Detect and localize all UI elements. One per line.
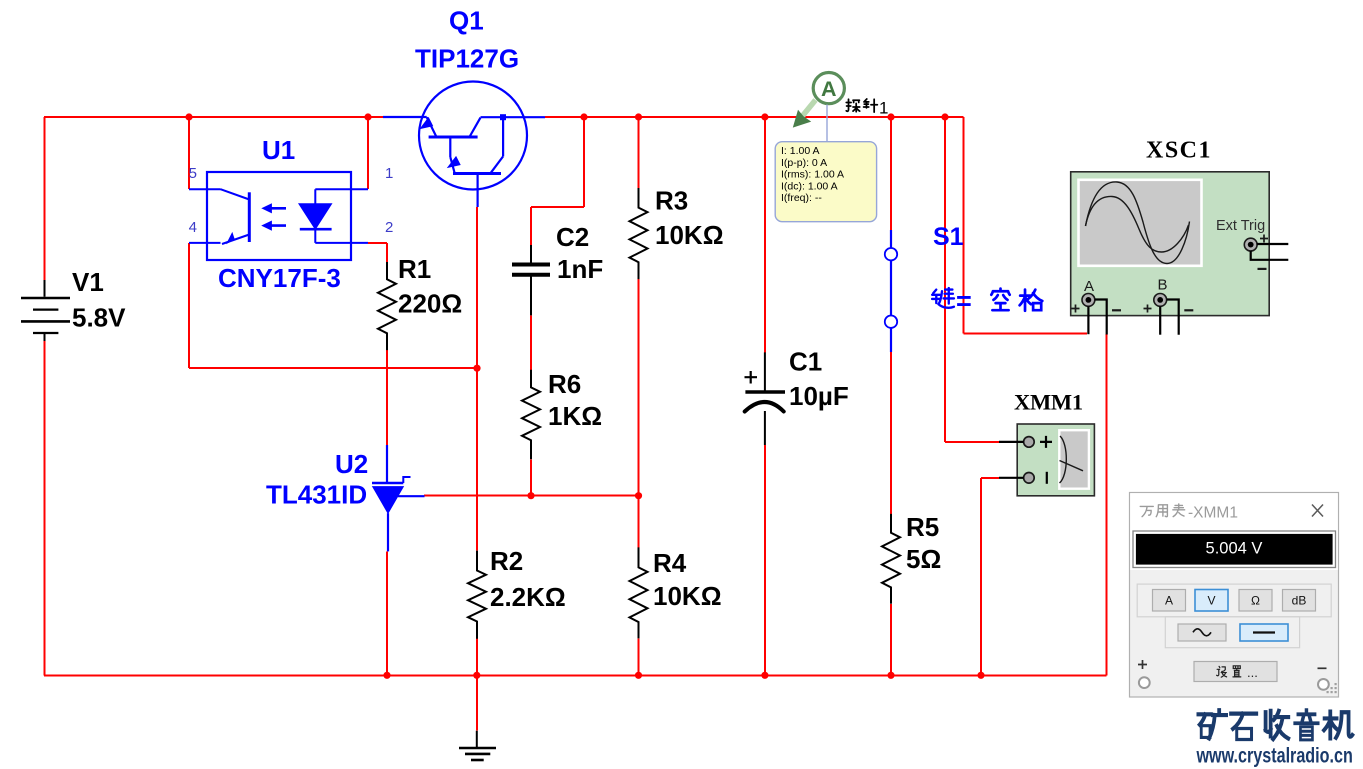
label C1 <box>789 347 822 377</box>
terminal XSC1 B <box>1144 294 1194 313</box>
probe name 探针1 <box>846 99 877 112</box>
battery V1 <box>21 280 70 341</box>
wire top rail to R3 <box>638 117 640 188</box>
probe name suffix 1 <box>879 99 888 118</box>
probe tooltip box <box>775 142 876 222</box>
wire XSC1 B plus stub <box>1159 306 1161 334</box>
value 10Kohm R3 <box>655 220 724 250</box>
svg-text:=: = <box>956 286 972 316</box>
dialog terminal minus <box>1318 668 1329 690</box>
junction top rail S1 <box>887 113 894 120</box>
svg-text:S1: S1 <box>933 223 964 251</box>
junction top rail R3 <box>635 113 642 120</box>
junction top rail C2 <box>580 113 587 120</box>
ground <box>459 731 496 760</box>
wire top rail to S1 <box>890 117 892 230</box>
svg-text:I(dc): 1.00 A: I(dc): 1.00 A <box>781 180 838 192</box>
junction bottom rail XMM1 minus <box>977 672 984 679</box>
current probe arrow <box>793 73 845 128</box>
shunt regulator U2 TL431ID <box>372 445 425 551</box>
svg-text:I(rms): 1.00 A: I(rms): 1.00 A <box>781 169 844 181</box>
value 5ohm <box>906 544 941 574</box>
value 1nF <box>557 254 603 284</box>
label R6 <box>548 369 581 399</box>
svg-text:5Ω: 5Ω <box>906 544 941 574</box>
svg-text:XMM1: XMM1 <box>1014 390 1083 415</box>
dialog button ohm <box>1239 590 1272 612</box>
label XSC1 <box>1146 138 1212 164</box>
svg-text:R3: R3 <box>655 186 688 216</box>
dialog button A <box>1153 590 1186 612</box>
wire S1 to R5 <box>890 352 892 514</box>
svg-text:R1: R1 <box>398 254 431 284</box>
capacitor C2 <box>512 245 550 315</box>
junction top rail C1 <box>761 113 768 120</box>
svg-text:10KΩ: 10KΩ <box>653 581 722 611</box>
dialog display bevel <box>1133 531 1336 568</box>
label S1 equals sign <box>956 286 972 316</box>
dialog button AC <box>1178 624 1226 641</box>
svg-text:R5: R5 <box>906 512 939 542</box>
wire U1 pin4 down to node A2 <box>189 243 477 368</box>
junction top rail pin5 <box>185 113 192 120</box>
wire top rail to C1 <box>764 117 766 352</box>
wire left rail V1 <box>44 117 46 675</box>
junction top rail XMM1 <box>941 113 948 120</box>
value 5.8V <box>72 303 126 333</box>
terminal XSC1 Ext Trig <box>1244 235 1268 269</box>
dialog title suffix <box>1188 505 1238 522</box>
pin number 4 <box>189 219 197 236</box>
wire R6 to node ref <box>530 459 532 495</box>
dialog resize grip <box>1327 683 1337 693</box>
resistor R1 <box>378 262 396 350</box>
svg-text:Ω: Ω <box>1251 594 1260 608</box>
svg-text:dB: dB <box>1292 594 1307 608</box>
dialog 万用表-XMM1 window <box>1130 493 1339 698</box>
wire XMM1 minus to bottom rail <box>981 478 999 676</box>
svg-text:5.8V: 5.8V <box>72 303 126 333</box>
dialog display reading <box>1206 540 1263 558</box>
svg-text:C1: C1 <box>789 347 822 377</box>
switch S1 <box>885 230 897 352</box>
wire bottom rail <box>44 674 1107 676</box>
dialog button V selected <box>1195 590 1228 612</box>
multimeter XMM1 <box>1017 424 1094 496</box>
wire U2 ref horizontal <box>424 495 639 497</box>
junction ref R6 <box>527 492 534 499</box>
svg-text:10KΩ: 10KΩ <box>655 220 724 250</box>
svg-text:10µF: 10µF <box>789 381 849 411</box>
label U1 <box>262 135 295 165</box>
junction bottom rail R4 <box>635 672 642 679</box>
svg-text:www.crystalradio.cn: www.crystalradio.cn <box>1196 745 1353 768</box>
wire top rail corner to XSC1 A plus <box>964 117 1088 333</box>
svg-text:XSC1: XSC1 <box>1146 138 1212 164</box>
dialog button dB <box>1283 590 1316 612</box>
value TL431ID <box>266 480 367 510</box>
wire R3 to R4 <box>638 279 640 547</box>
resistor R4 <box>630 547 648 638</box>
svg-text:5: 5 <box>189 165 197 182</box>
value CNY17F-3 <box>218 263 341 293</box>
resistor R5 <box>882 514 900 604</box>
svg-text:R4: R4 <box>653 548 687 578</box>
svg-text:V: V <box>1207 594 1215 608</box>
watermark 矿石收音机 <box>1198 710 1352 740</box>
wire bottom rail to ground <box>476 675 478 730</box>
junction bottom rail R5 <box>887 672 894 679</box>
value 2.2Kohm <box>490 582 566 612</box>
junction node A2 collector <box>473 365 480 372</box>
wire XSC1 A minus down to bottom rail <box>1106 334 1108 675</box>
oscilloscope XSC1 <box>1071 172 1270 316</box>
svg-text:1KΩ: 1KΩ <box>548 401 602 431</box>
resistor R3 <box>630 188 648 279</box>
junction top rail pin1 <box>364 113 371 120</box>
transistor Q1 TIP127G <box>383 82 545 208</box>
svg-text:A: A <box>1084 278 1094 295</box>
svg-text:Ext Trig: Ext Trig <box>1216 218 1265 234</box>
wire R1 to U2 cathode <box>386 350 388 445</box>
label R3 <box>655 186 688 216</box>
wire C1 to bottom rail <box>764 445 766 675</box>
wire XSC1 A plus stub <box>1087 306 1089 334</box>
value 10Kohm R4 <box>653 581 722 611</box>
svg-text:TIP127G: TIP127G <box>415 44 519 74</box>
wire U1 pin2 to R1 <box>368 243 387 262</box>
svg-text:A: A <box>821 77 837 101</box>
value 1Kohm <box>548 401 602 431</box>
dialog group box 1 <box>1137 584 1331 617</box>
svg-text:-XMM1: -XMM1 <box>1188 505 1238 522</box>
wire XSC1 B minus stub <box>1167 300 1179 335</box>
svg-text:Q1: Q1 <box>449 6 484 36</box>
svg-text:C2: C2 <box>556 222 589 252</box>
dialog button DC selected <box>1240 624 1288 641</box>
svg-text:I(freq): --: I(freq): -- <box>781 192 822 204</box>
resistor R2 <box>468 551 486 639</box>
probe leader line <box>826 105 828 142</box>
wire R2 to bottom rail <box>476 639 478 676</box>
wire top rail to XMM1 plus <box>945 117 999 442</box>
dialog button 设置 <box>1194 662 1277 682</box>
optocoupler U1 CNY17F-3 <box>189 172 368 260</box>
wire XMM1 minus stub <box>999 477 1024 479</box>
wire C2 to R6 <box>530 315 532 369</box>
svg-text:R6: R6 <box>548 369 581 399</box>
svg-text:A: A <box>1165 594 1173 608</box>
wire XMM1 plus stub <box>999 441 1024 443</box>
label Q1 <box>449 6 484 36</box>
pin number 2 <box>385 219 393 236</box>
label S1 key text 键 = 空格 <box>932 288 1042 311</box>
label C2 <box>556 222 589 252</box>
pin number 5 <box>189 165 197 182</box>
svg-text:1nF: 1nF <box>557 254 603 284</box>
label R2 <box>490 546 523 576</box>
label U2 <box>335 449 368 479</box>
wire U2 anode to bottom rail <box>386 551 388 675</box>
svg-text:2.2KΩ: 2.2KΩ <box>490 582 566 612</box>
wire R4 to bottom rail <box>638 638 640 675</box>
label R4 <box>653 548 687 578</box>
wire Q1 collector down through node to R2 <box>476 207 478 551</box>
svg-text:B: B <box>1158 277 1168 294</box>
label R5 <box>906 512 939 542</box>
label V1 <box>72 267 104 297</box>
dialog terminal plus <box>1138 660 1150 688</box>
value TIP127G <box>415 44 519 74</box>
dialog group box 2 <box>1165 617 1299 648</box>
svg-text:1: 1 <box>879 99 888 118</box>
svg-text:U2: U2 <box>335 449 368 479</box>
pin number 1 <box>385 165 393 182</box>
svg-text:CNY17F-3: CNY17F-3 <box>218 263 341 293</box>
svg-text:4: 4 <box>189 219 197 236</box>
wire top rail to C2 <box>531 117 584 245</box>
svg-text:R2: R2 <box>490 546 523 576</box>
wire Ext Trig plus stub <box>1257 243 1289 245</box>
label R1 <box>398 254 431 284</box>
value 10uF <box>789 381 849 411</box>
svg-text:I: 1.00 A: I: 1.00 A <box>781 145 820 157</box>
watermark url <box>1196 745 1353 768</box>
svg-text:1: 1 <box>385 165 393 182</box>
wire top rail <box>44 116 964 118</box>
svg-text:2: 2 <box>385 219 393 236</box>
svg-text:I(p-p): 0 A: I(p-p): 0 A <box>781 157 827 169</box>
terminal XSC1 A <box>1072 294 1122 313</box>
wire U1 pin1 to top rail <box>367 117 369 189</box>
value 220ohm <box>398 289 462 319</box>
junction bottom rail C1 <box>761 672 768 679</box>
svg-text:U1: U1 <box>262 135 295 165</box>
svg-text:220Ω: 220Ω <box>398 289 462 319</box>
capacitor C1 polarized <box>745 352 786 445</box>
dialog title 万用表-XMM1 <box>1140 504 1184 517</box>
junction bottom rail U2 <box>383 672 390 679</box>
junction ref R4 <box>635 492 642 499</box>
label XMM1 <box>1014 390 1083 415</box>
svg-text:...: ... <box>1247 665 1258 680</box>
wire Ext Trig minus stub <box>1251 251 1289 260</box>
dialog close button <box>1312 505 1323 517</box>
junction bottom rail ground <box>473 672 480 679</box>
wire R5 to bottom rail <box>890 604 892 676</box>
svg-text:TL431ID: TL431ID <box>266 480 367 510</box>
wire U1 pin5 to top rail <box>188 117 190 189</box>
label S1 <box>933 223 964 251</box>
resistor R6 <box>522 370 540 460</box>
svg-text:V1: V1 <box>72 267 104 297</box>
wire XSC1 A minus stub <box>1095 300 1107 335</box>
svg-text:5.004 V: 5.004 V <box>1206 540 1263 558</box>
